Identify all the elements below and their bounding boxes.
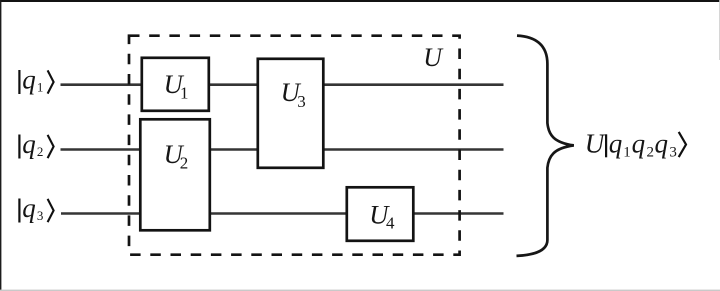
svg-text:3: 3	[297, 92, 306, 111]
frame right border	[718, 0, 720, 60]
svg-text:3: 3	[37, 208, 44, 223]
svg-text:q: q	[632, 129, 646, 159]
qubit label |q1>	[18, 65, 53, 95]
frame left border	[0, 0, 1, 291]
wire q1 segment right	[324, 83, 504, 86]
svg-text:q: q	[22, 193, 36, 223]
svg-text:1: 1	[37, 80, 44, 95]
dashed boundary box U	[129, 36, 460, 255]
qubit label |q3>	[18, 193, 53, 223]
gate U2	[140, 119, 210, 230]
gate U1	[142, 58, 209, 111]
svg-text:q: q	[22, 129, 36, 159]
svg-text:q: q	[655, 129, 669, 159]
wire q3 segment U2-U4	[210, 212, 346, 215]
wire q3 segment right	[414, 212, 504, 215]
svg-text:q: q	[22, 65, 36, 95]
gate U3	[258, 59, 324, 168]
output label U|q1q2q3>	[585, 129, 686, 161]
svg-text:U: U	[423, 43, 444, 72]
wire q2 segment right	[324, 148, 504, 151]
frame top border	[0, 0, 720, 2]
svg-text:2: 2	[180, 153, 189, 172]
svg-text:2: 2	[37, 144, 44, 159]
wire q1 segment U1-U3	[209, 83, 257, 86]
svg-text:2: 2	[647, 145, 655, 161]
wire q1 segment left	[61, 83, 142, 86]
svg-text:q: q	[609, 129, 623, 159]
svg-text:3: 3	[669, 145, 677, 161]
frame bottom border	[0, 290, 720, 291]
svg-text:U: U	[585, 129, 606, 159]
qubit label |q2>	[18, 129, 53, 159]
svg-text:1: 1	[180, 83, 189, 102]
brace	[517, 36, 574, 256]
wire q2 segment left	[61, 148, 141, 151]
gate U4	[347, 187, 414, 241]
svg-text:4: 4	[386, 214, 395, 233]
svg-text:1: 1	[623, 145, 631, 161]
wire q2 segment U2-U3	[210, 148, 257, 151]
wire q3 segment left	[61, 212, 140, 215]
